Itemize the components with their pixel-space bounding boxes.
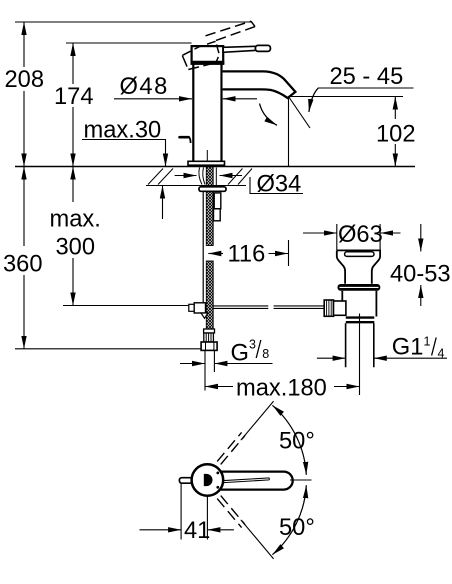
locknut under deck <box>199 187 226 192</box>
mounting stud upper <box>214 193 221 209</box>
solid lever grip <box>255 45 270 51</box>
svg-text:40-53: 40-53 <box>390 261 451 287</box>
dashed hub rotated left edge <box>182 56 188 70</box>
svg-text:4: 4 <box>438 347 445 361</box>
svg-text:50°: 50° <box>279 429 315 455</box>
svg-text:8: 8 <box>262 347 269 361</box>
spout tip vertical line <box>288 97 290 167</box>
pop-up rod under deck <box>202 192 204 304</box>
reference line top of hub <box>66 42 192 44</box>
braided hose lower <box>206 261 213 329</box>
dimension 102 vertical line <box>394 97 396 120</box>
supply hoses in deck opening <box>199 168 205 185</box>
svg-text:G: G <box>231 341 249 367</box>
dimension 360 vertical line <box>23 167 25 247</box>
dashed lever (raised position) top edge <box>206 21 252 36</box>
max.30 lower arrow (deck underside) <box>162 186 164 220</box>
plan rod nub <box>179 478 192 484</box>
svg-text:50°: 50° <box>279 515 315 541</box>
dashed lever bottom edge <box>216 27 255 41</box>
deck / counter reference line <box>15 166 415 168</box>
dashed hub rotated top edge <box>183 41 217 55</box>
max.300 bottom reference line <box>63 305 190 307</box>
upper 50 deg dashed ray <box>217 432 245 464</box>
spout <box>223 71 296 98</box>
upper ray solid line <box>241 401 274 440</box>
plan body circle <box>192 464 224 496</box>
drain rod port box <box>334 301 346 315</box>
lower 50 deg dashed ray <box>217 496 245 528</box>
mounting stud lower <box>214 209 221 221</box>
solid lever shaft <box>223 46 256 52</box>
dashed lever end cap <box>251 21 255 26</box>
dimension max.300 vertical line <box>72 167 74 203</box>
svg-text:208: 208 <box>5 67 45 93</box>
deck hatching right <box>228 169 252 185</box>
svg-text:360: 360 <box>3 252 43 278</box>
spout outlet reference line <box>289 96 404 98</box>
svg-text:174: 174 <box>54 84 94 110</box>
lower ray solid line <box>241 520 274 559</box>
drain tailpipe <box>346 323 374 367</box>
pop-up rod knob on body <box>180 136 188 139</box>
360 bottom reference line <box>15 348 201 350</box>
upper 50 deg arc <box>272 405 306 475</box>
dimension G1 1/4 <box>317 357 346 359</box>
svg-text:3: 3 <box>249 338 256 352</box>
svg-text:300: 300 <box>56 235 96 261</box>
spray angle arc right <box>309 88 319 112</box>
dimension G3/8 <box>180 363 205 365</box>
svg-text:Ø48: Ø48 <box>120 74 169 100</box>
faucet hub (cartridge housing) <box>192 46 224 64</box>
G3/8 nut <box>201 342 217 350</box>
top reference line (max height, lever raised) <box>15 21 252 23</box>
plan lever inner ridge <box>220 478 270 483</box>
plan lever stadium <box>210 472 293 490</box>
spray direction diagonal <box>289 97 311 129</box>
svg-text:41: 41 <box>184 518 210 544</box>
drain plug disc <box>345 252 374 257</box>
spray angle arc left <box>260 104 278 126</box>
drain Ø63 extension lines <box>336 224 338 250</box>
dashed hub rotated right edge <box>216 45 219 63</box>
dimension Ø34 arrows <box>175 175 197 177</box>
hub bottom band <box>191 61 225 65</box>
svg-text:Ø63: Ø63 <box>338 222 383 248</box>
dimension 116 <box>208 253 223 255</box>
drain center line <box>359 314 361 396</box>
dimension 41 arrows <box>140 529 182 531</box>
plan 0-degree reference line <box>290 479 312 481</box>
deck section bottom line <box>146 185 246 187</box>
svg-text:max.180: max.180 <box>236 376 327 402</box>
dimension 41 extension lines <box>180 484 182 540</box>
knurled collar <box>204 333 214 342</box>
drain flange <box>337 250 380 283</box>
drain coupling ring <box>346 316 375 318</box>
svg-text:1: 1 <box>424 335 431 349</box>
svg-text:max.: max. <box>50 207 101 233</box>
dashed hub rotated bottom edge <box>188 63 216 70</box>
dimension Ø63 arrows <box>303 232 337 234</box>
drain o-ring <box>338 284 381 291</box>
drain body below o-ring <box>342 291 376 317</box>
25-45 underline <box>318 87 414 89</box>
dimension max.180 <box>205 386 233 388</box>
svg-text:102: 102 <box>376 122 416 148</box>
dimension 40-53 <box>420 224 422 252</box>
dimension 174 vertical line <box>72 43 74 84</box>
drain body left side lower <box>345 311 346 315</box>
svg-text:116: 116 <box>228 242 266 268</box>
braided hose upper <box>206 167 213 246</box>
svg-text:25 - 45: 25 - 45 <box>330 64 404 90</box>
plan cartridge D-dot <box>204 474 213 486</box>
extension lines below nut <box>204 350 206 390</box>
base plate <box>188 161 225 165</box>
pop-up rod tee <box>189 304 194 311</box>
faucet body <box>193 64 221 162</box>
deck hatching left <box>148 169 173 185</box>
svg-text:G1: G1 <box>392 335 424 361</box>
horizontal pop-up rod to drain <box>213 306 268 309</box>
drain rod knob <box>324 300 333 316</box>
hose end fitting <box>204 329 215 333</box>
dimension 208 vertical line <box>23 22 25 67</box>
plan screw dots <box>216 472 219 475</box>
pop-up rod inside body <box>206 150 208 165</box>
lower 50 deg arc <box>272 485 306 555</box>
